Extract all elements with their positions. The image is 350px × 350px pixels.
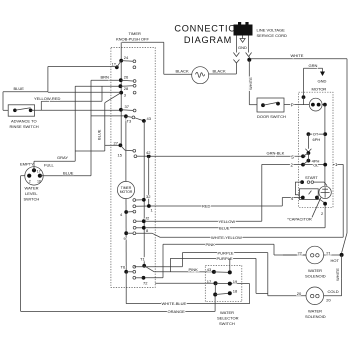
svg-text:BLUE: BLUE	[14, 86, 25, 91]
motor M1 dashed enclosure	[299, 92, 333, 207]
svg-text:LEVEL: LEVEL	[25, 191, 38, 196]
capacitor C1	[319, 186, 331, 216]
svg-text:32: 32	[146, 194, 151, 199]
wire: WHITE-BLUE from timer T6 to selector 19	[126, 272, 249, 306]
svg-text:T3: T3	[127, 119, 132, 124]
noise filter F1	[192, 67, 209, 84]
wire: BLUE from timer 8 to capacitor	[146, 204, 325, 231]
motor overload protector	[309, 98, 326, 111]
svg-text:WHITE: WHITE	[248, 77, 253, 90]
svg-text:72: 72	[143, 281, 148, 286]
svg-text:COLD: COLD	[328, 289, 339, 294]
svg-text:WHITE-YELLOW: WHITE-YELLOW	[211, 235, 242, 240]
motor terminal S 4PH	[291, 153, 319, 163]
svg-text:RINSE SWITCH: RINSE SWITCH	[10, 124, 39, 129]
timer contact 26	[119, 75, 136, 83]
svg-text:43: 43	[207, 267, 212, 272]
svg-text:ADVANCE TO: ADVANCE TO	[11, 118, 37, 123]
svg-text:17: 17	[37, 170, 41, 174]
svg-text:DIAGRAM: DIAGRAM	[184, 35, 232, 45]
wire: timer inner bus x144	[143, 121, 145, 266]
wire: GRN-BLK from timer 42 to motor S	[151, 151, 306, 157]
timer contact 9	[124, 231, 136, 241]
wire: BLUE to advance switch	[3, 86, 48, 110]
svg-text:28: 28	[124, 86, 129, 91]
wire: ORANGE from water level switch to selector	[21, 176, 216, 314]
timer contact T6	[121, 265, 136, 280]
timer contact 37	[119, 104, 136, 112]
svg-text:WATER: WATER	[308, 268, 322, 273]
water level switch S3	[25, 167, 43, 185]
motor contact OT 6PH	[307, 132, 328, 143]
wire: PURPLE upper to cold solenoid riser	[182, 250, 267, 295]
svg-text:OT: OT	[313, 132, 319, 137]
svg-text:18: 18	[233, 289, 238, 294]
svg-text:26: 26	[124, 75, 129, 80]
door switch S1	[257, 98, 286, 119]
svg-text:42: 42	[146, 150, 151, 155]
wire: BLUE from water level switch 16 to riser	[40, 129, 101, 175]
svg-text:27: 27	[114, 140, 119, 145]
timer contact T3 / 43	[124, 114, 152, 150]
svg-text:BLACK: BLACK	[213, 69, 226, 74]
wire: timer main bus	[120, 61, 122, 146]
wire: WHITE down to door switch	[248, 60, 257, 105]
wire: motor left bus with connector	[305, 134, 311, 155]
svg-text:WHITE: WHITE	[335, 268, 340, 281]
svg-text:GRN: GRN	[309, 63, 318, 68]
node: white/neutral junction	[247, 58, 251, 62]
svg-text:P: P	[291, 102, 294, 107]
wire: purple riser from T1 circle row	[134, 253, 182, 267]
capacitor label with leader	[287, 198, 321, 222]
svg-text:BLACK: BLACK	[176, 69, 189, 74]
svg-text:HOT: HOT	[331, 258, 340, 263]
timer contact 72	[136, 276, 149, 286]
line voltage service cord plug	[234, 22, 287, 38]
wire: left line cord conductor with connector arrows	[209, 36, 240, 75]
svg-text:RED: RED	[202, 204, 211, 209]
svg-text:GRAY: GRAY	[57, 155, 68, 160]
svg-text:BLUE: BLUE	[96, 129, 101, 140]
svg-text:15: 15	[118, 153, 123, 158]
svg-text:GRN-BLK: GRN-BLK	[267, 151, 285, 156]
svg-text:SOLENOID: SOLENOID	[305, 274, 326, 279]
selector contact 17 / 19	[155, 279, 238, 286]
svg-text:BLUE: BLUE	[219, 226, 230, 231]
svg-text:WATER: WATER	[220, 310, 234, 315]
svg-text:24: 24	[124, 55, 129, 60]
svg-text:FULL: FULL	[44, 162, 55, 167]
svg-text:SERVICE CORD: SERVICE CORD	[257, 33, 287, 38]
hot water solenoid L1	[283, 246, 342, 278]
svg-text:ORANGE: ORANGE	[168, 309, 186, 314]
ground symbol GND under plug	[238, 36, 247, 50]
svg-text:BLUE: BLUE	[63, 170, 74, 175]
timer contact 3	[105, 91, 136, 151]
wire: door switch to motor P	[284, 102, 309, 107]
wire: white bus down to cold solenoid	[324, 255, 342, 296]
svg-text:CONNECTION: CONNECTION	[174, 24, 243, 34]
svg-text:19: 19	[233, 279, 238, 284]
selector contact 43	[207, 267, 232, 275]
svg-text:1T: 1T	[112, 62, 117, 67]
timer contact T1	[140, 257, 154, 272]
svg-text:20: 20	[297, 291, 302, 296]
wire: RED from timer 1 to motor 4	[151, 198, 303, 209]
svg-text:WATER: WATER	[25, 185, 39, 190]
timer contact 24	[119, 55, 136, 63]
timer contact 8	[133, 226, 149, 233]
wire: GRN motor ground	[302, 63, 327, 105]
svg-text:*CAPACITOR: *CAPACITOR	[287, 216, 312, 221]
selector switch labels	[217, 310, 239, 326]
wire: PINK (T1 arm) to selector 43	[154, 267, 214, 272]
motor start switch	[291, 175, 327, 203]
svg-text:37: 37	[125, 104, 130, 109]
wire: YELLOW-RED from advance switch to timer 28	[34, 86, 119, 161]
timer contact 27 / 15	[114, 140, 136, 157]
svg-text:PURPLE: PURPLE	[217, 256, 233, 261]
wire: riser x91 BRN row to water level switch	[31, 75, 124, 176]
advance to rinse switch S2	[8, 105, 39, 129]
svg-text:16: 16	[37, 179, 41, 183]
svg-text:YELLOW: YELLOW	[219, 219, 236, 224]
svg-text:S: S	[291, 155, 294, 160]
svg-text:MOTOR: MOTOR	[312, 86, 327, 91]
svg-text:SELECTOR: SELECTOR	[217, 315, 239, 320]
water level switch labels	[20, 161, 55, 201]
svg-text:PINK: PINK	[189, 267, 199, 272]
wire: GRAY from timer 27 to water level switch	[34, 145, 119, 170]
title CONNECTION DIAGRAM	[174, 24, 243, 46]
svg-text:43: 43	[147, 116, 152, 121]
wire: WHITE-YELLOW from timer 9 to motor 1 riser	[136, 233, 343, 240]
water selector switch S4 dashed box	[205, 266, 242, 302]
svg-text:EMPTY: EMPTY	[20, 161, 34, 166]
selector contact 18	[213, 283, 238, 296]
wire: motor 1 to white-yellow riser	[333, 162, 343, 237]
timer T1 dashed enclosure	[111, 48, 155, 288]
svg-text:START: START	[305, 175, 318, 180]
timer label	[116, 31, 149, 41]
node: white junction at solenoids	[340, 253, 344, 257]
svg-text:PURPLE: PURPLE	[218, 250, 234, 255]
svg-text:PINK: PINK	[206, 242, 216, 247]
svg-text:DOOR SWITCH: DOOR SWITCH	[257, 114, 286, 119]
svg-text:KNOB-PUSH OFF: KNOB-PUSH OFF	[116, 37, 149, 42]
wire: PINK feed from timer 72 to hot solenoid	[145, 242, 306, 278]
wire: PURPLE lower from T1 arm row	[170, 256, 267, 293]
motor terminal 2 OL	[291, 161, 328, 168]
timer contact 1 (RED row)	[133, 204, 154, 212]
svg-text:TIMER: TIMER	[129, 31, 142, 36]
timer motor M2	[117, 150, 134, 272]
svg-text:20: 20	[326, 298, 331, 303]
wire: WHITE neutral to right side	[249, 53, 347, 253]
wire: right line cord conductor	[246, 36, 252, 61]
svg-text:YELLOW-RED: YELLOW-RED	[34, 96, 60, 101]
svg-text:OL: OL	[313, 162, 319, 167]
timer contact 42	[134, 150, 151, 206]
svg-text:T6: T6	[121, 265, 126, 270]
timer contact 4	[120, 210, 136, 217]
svg-text:GND: GND	[238, 45, 247, 50]
wire: YELLOW from timer J2 to motor 2	[146, 164, 302, 224]
svg-text:22: 22	[298, 250, 303, 255]
svg-text:WATER: WATER	[308, 309, 322, 314]
svg-text:GND: GND	[318, 79, 327, 84]
svg-text:SOLENOID: SOLENOID	[305, 314, 326, 319]
timer contact 32	[133, 194, 151, 202]
svg-text:BRN: BRN	[101, 75, 110, 80]
wire: from 1T to left riser	[48, 67, 117, 92]
wire: motor right bus	[324, 105, 326, 187]
wire: BLACK from timer to filter	[121, 42, 192, 74]
svg-text:SWITCH: SWITCH	[219, 321, 235, 326]
svg-text:WHITE: WHITE	[291, 53, 304, 58]
svg-text:SWITCH: SWITCH	[24, 197, 40, 202]
svg-text:WHITE-BLUE: WHITE-BLUE	[162, 301, 187, 306]
timer contact J2	[133, 216, 150, 224]
timer contact 1T	[112, 61, 136, 70]
timer contact 28	[119, 84, 137, 91]
svg-text:6PH: 6PH	[313, 137, 321, 142]
cold water solenoid L2	[268, 287, 339, 319]
svg-text:21: 21	[326, 250, 331, 255]
svg-text:2: 2	[29, 179, 31, 183]
svg-text:MOTOR: MOTOR	[120, 190, 133, 194]
svg-text:T1: T1	[140, 257, 145, 262]
svg-text:LINE VOLTAGE: LINE VOLTAGE	[257, 28, 286, 33]
